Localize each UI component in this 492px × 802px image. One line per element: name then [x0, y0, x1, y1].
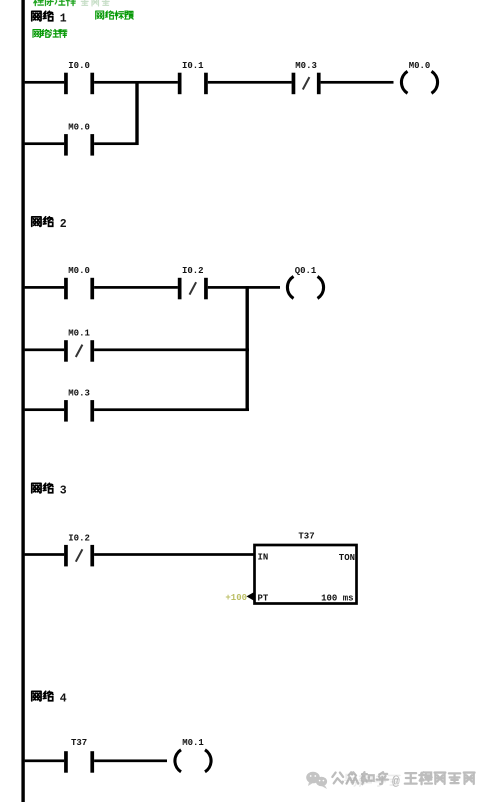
contact I0.0	[64, 73, 94, 95]
coil M0.0	[401, 71, 437, 93]
network 2 caption 网络 2	[32, 217, 67, 231]
contact M0.0	[64, 278, 94, 300]
svg-text:2: 2	[60, 218, 67, 231]
wire rail to M0.0 contact	[25, 142, 65, 145]
network 1 caption 网络 1	[32, 11, 67, 25]
wire M0.0 to I0.2	[94, 286, 178, 289]
contact T37	[64, 751, 94, 773]
contact M0.3	[64, 400, 94, 422]
svg-text:Q0.1: Q0.1	[295, 266, 317, 276]
contact I0.1	[178, 73, 208, 95]
svg-text:IN: IN	[258, 553, 269, 563]
svg-text:M0.3: M0.3	[295, 61, 317, 71]
wire rail to M0.0 N2	[25, 286, 65, 289]
contact I0.2 (NC)	[178, 278, 208, 300]
svg-text:I0.1: I0.1	[182, 61, 204, 71]
svg-text:M0.1: M0.1	[68, 329, 90, 339]
network 3 caption 网络 3	[32, 483, 67, 497]
wire I0.2 to timer box	[94, 553, 255, 556]
contact M0.1 (NC)	[64, 340, 94, 362]
network 4 caption 网络 4	[32, 691, 67, 705]
wire rail to M0.1	[25, 348, 65, 351]
wire rail to T37 contact	[25, 759, 65, 762]
wire rail to I0.0	[25, 81, 65, 84]
svg-text:I0.2: I0.2	[68, 533, 90, 543]
wire rail to M0.3 N2	[25, 408, 65, 411]
wire rail to I0.2 N3	[25, 553, 65, 556]
wire junction N2	[246, 286, 249, 411]
wire M0.3 to junction N2	[94, 408, 249, 411]
svg-text:3: 3	[60, 485, 67, 498]
svg-text:M0.1: M0.1	[182, 738, 204, 748]
svg-text:100 ms: 100 ms	[321, 593, 353, 603]
svg-text:4: 4	[60, 693, 67, 706]
contact I0.2 (NC)	[64, 545, 94, 567]
PT input arrowhead	[247, 592, 255, 601]
wire junction N1	[135, 81, 138, 145]
watermark wechat icon	[306, 772, 327, 789]
svg-text:M0.0: M0.0	[409, 61, 431, 71]
program comment text (clipped at top)	[34, 0, 110, 6]
wire I0.2 to coil Q0.1	[208, 286, 280, 289]
svg-text:1: 1	[60, 13, 67, 26]
svg-text:+100: +100	[225, 593, 247, 603]
coil Q0.1	[287, 276, 323, 298]
svg-text:I0.0: I0.0	[68, 61, 90, 71]
svg-text:M0.3: M0.3	[68, 389, 90, 399]
network 1 title 网络标题 (green)	[96, 11, 133, 19]
wire M0.0 contact to junction N1	[94, 142, 138, 145]
network 1 comment 网络注释 (green)	[33, 29, 67, 37]
svg-text:TON: TON	[339, 553, 355, 563]
wire T37 to coil M0.1	[94, 759, 167, 762]
wire M0.1 to junction N2	[94, 348, 249, 351]
wire I0.1 to M0.3	[208, 81, 292, 84]
svg-text:PT: PT	[258, 593, 269, 603]
wire M0.3 to coil M0.0	[321, 81, 394, 84]
timer T37 box (TON)	[255, 545, 357, 604]
coil M0.1	[175, 750, 211, 772]
contact M0.0	[64, 134, 94, 156]
watermark text 公众号知乎@... (gray, ghosted)	[332, 772, 474, 789]
svg-text:T37: T37	[298, 532, 314, 542]
svg-text:T37: T37	[71, 738, 87, 748]
contact M0.3 (NC)	[292, 73, 321, 95]
left power rail	[21, 0, 24, 802]
wire I0.0 to I0.1	[94, 81, 178, 84]
svg-text:M0.0: M0.0	[68, 123, 90, 133]
svg-text:M0.0: M0.0	[68, 266, 90, 276]
svg-text:I0.2: I0.2	[182, 266, 204, 276]
